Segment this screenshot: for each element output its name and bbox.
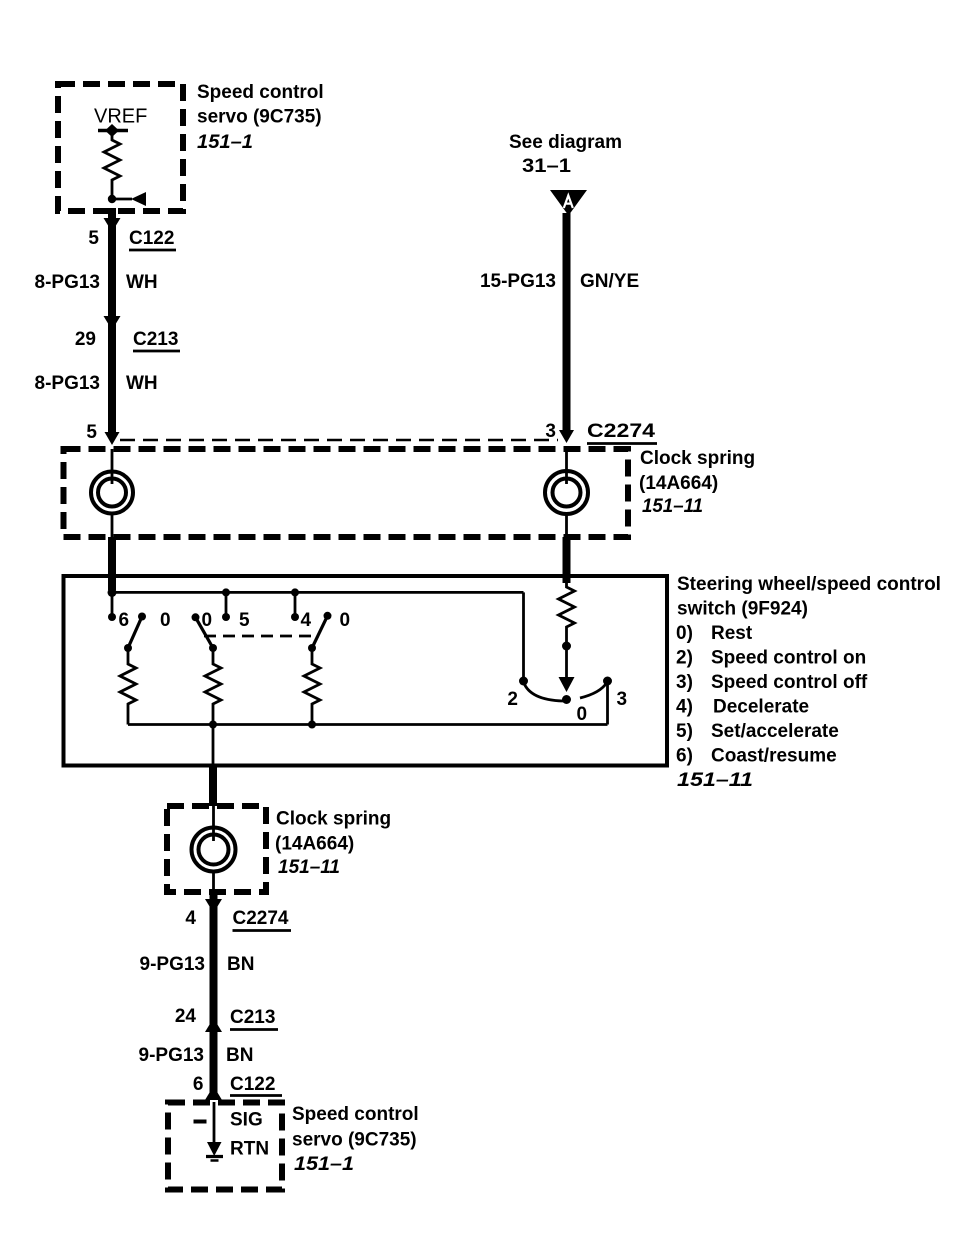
svg-text:6: 6 — [119, 610, 130, 631]
ground symbol — [207, 1142, 222, 1156]
clock spring box (upper, dashed) — [64, 449, 629, 537]
svg-text:Clock spring: Clock spring — [276, 809, 391, 830]
svg-text:RTN: RTN — [230, 1139, 269, 1160]
clock spring box (lower, dashed) — [167, 806, 266, 892]
svg-text:WH: WH — [126, 373, 158, 394]
arrow at clock spring pin 3 — [559, 430, 574, 443]
svg-text:5: 5 — [239, 610, 250, 631]
pin SIG RTN wire inside servo — [213, 1102, 216, 1146]
svg-text:31–1: 31–1 — [522, 156, 571, 177]
svg-text:C122: C122 — [230, 1074, 275, 1095]
rotary arc (right segment) — [580, 683, 607, 698]
svg-text:C2274: C2274 — [233, 908, 289, 929]
svg-text:151–11: 151–11 — [642, 496, 703, 517]
contact 5 stub — [225, 592, 228, 615]
svg-text:8-PG13: 8-PG13 — [35, 272, 100, 293]
svg-text:Speed control: Speed control — [292, 1104, 419, 1125]
potentiometer wiper arrow — [108, 195, 116, 203]
svg-text:2: 2 — [507, 689, 518, 710]
svg-text:GN/YE: GN/YE — [580, 271, 639, 292]
svg-text:5: 5 — [88, 228, 99, 249]
svg-text:151–11: 151–11 — [278, 857, 340, 878]
steering wheel/speed control switch box S1 (solid) — [64, 576, 668, 766]
svg-text:BN: BN — [227, 954, 254, 975]
wire: SW2 branch down through box bottom — [212, 725, 215, 766]
wire: left coil to switch box — [108, 537, 116, 576]
svg-text:9-PG13: 9-PG13 — [140, 954, 205, 975]
wire: right coil to switch box — [563, 537, 571, 581]
wire: thick stub into box (right) — [563, 576, 571, 583]
svg-text:8-PG13: 8-PG13 — [35, 373, 100, 394]
svg-text:switch (9F924): switch (9F924) — [677, 599, 808, 620]
svg-text:5): 5) — [676, 721, 693, 742]
wire: bus corner down to contact 2 — [522, 592, 525, 679]
clock spring coil L1 (left) — [111, 449, 114, 484]
svg-text:C122: C122 — [129, 228, 174, 249]
arrow on wire below servo box — [104, 218, 121, 232]
svg-text:Speed control on: Speed control on — [711, 648, 866, 669]
speed control servo box U1 (top, dashed) — [58, 84, 183, 211]
arrow at pin 24 (up) — [205, 1018, 222, 1032]
switch arm SW3 (decelerate) — [324, 612, 332, 620]
bus wire inside switch box — [112, 591, 524, 594]
svg-text:0: 0 — [202, 610, 213, 631]
svg-text:(14A664): (14A664) — [639, 473, 718, 494]
contact 4 stub — [294, 592, 297, 615]
svg-text:24: 24 — [175, 1006, 197, 1027]
svg-text:3: 3 — [545, 421, 556, 442]
svg-text:C213: C213 — [133, 329, 178, 350]
switch arm SW2 (set/accelerate) — [192, 613, 200, 621]
svg-text:Clock spring: Clock spring — [640, 448, 755, 469]
svg-text:VREF: VREF — [94, 106, 147, 128]
svg-text:0: 0 — [160, 610, 171, 631]
svg-text:6: 6 — [193, 1074, 204, 1095]
svg-text:3): 3) — [676, 672, 693, 693]
rotary contact 2 — [519, 677, 528, 686]
svg-text:2): 2) — [676, 648, 693, 669]
svg-text:6): 6) — [676, 746, 693, 767]
mechanical coupling (dashed) between SW2 and SW3 — [204, 635, 319, 638]
svg-text:5: 5 — [86, 422, 97, 443]
svg-text:servo (9C735): servo (9C735) — [197, 107, 322, 128]
svg-text:0): 0) — [676, 623, 693, 644]
speed control servo box U1 (bottom, dashed) — [168, 1103, 282, 1190]
svg-text:151–1: 151–1 — [197, 132, 253, 153]
minus polarity mark — [194, 1120, 207, 1124]
svg-text:(14A664): (14A664) — [275, 834, 354, 855]
resistor R2 (SW2 branch) — [205, 648, 221, 725]
wire: R4 to rotary wiper — [565, 632, 568, 678]
svg-text:151–11: 151–11 — [677, 770, 753, 791]
clock spring coil L2 (right) — [565, 449, 568, 484]
svg-text:9-PG13: 9-PG13 — [139, 1045, 204, 1066]
clock spring coil L3 (lower) — [212, 806, 215, 841]
resistor R4 (on/off branch) — [559, 582, 575, 632]
svg-text:3: 3 — [617, 689, 628, 710]
resistor: VREF potentiometer element — [104, 135, 120, 185]
wire: A down to clock spring pin 3 — [563, 213, 571, 436]
svg-text:SIG: SIG — [230, 1110, 263, 1131]
svg-text:Coast/resume: Coast/resume — [711, 746, 837, 767]
svg-text:servo (9C735): servo (9C735) — [292, 1130, 417, 1151]
wire: contact 3 down to bottom bus — [606, 681, 609, 725]
svg-text:Speed control off: Speed control off — [711, 672, 868, 693]
svg-text:Decelerate: Decelerate — [713, 697, 809, 718]
svg-text:C213: C213 — [230, 1007, 275, 1028]
svg-text:Steering wheel/speed control: Steering wheel/speed control — [677, 574, 941, 595]
connector C2274 tie line (dashed) — [120, 439, 558, 442]
wire: servo pin 5 down to clock spring pin 5 — [108, 208, 116, 438]
off-page connector A (solid triangle) — [550, 190, 587, 216]
resistor R3 (SW3 branch) — [304, 648, 320, 725]
arrow at pin 6 (up) — [205, 1086, 222, 1100]
svg-text:4): 4) — [676, 697, 693, 718]
svg-text:29: 29 — [75, 329, 96, 350]
svg-text:Rest: Rest — [711, 623, 753, 644]
resistor R1 (SW1 branch) — [120, 648, 136, 725]
svg-text:See diagram: See diagram — [509, 132, 622, 153]
svg-text:4: 4 — [185, 908, 196, 929]
arrow at clock spring pin 5 — [105, 432, 120, 445]
contact 6 stub — [111, 592, 114, 615]
rotary arc (left segment) — [524, 682, 564, 701]
wire: thick stub into box (left) — [108, 572, 116, 590]
wire: lower clock spring to servo SIG RTN — [210, 892, 218, 1100]
svg-text:0: 0 — [577, 704, 588, 725]
rotary contact 3 — [603, 677, 612, 686]
svg-text:15-PG13: 15-PG13 — [480, 271, 556, 292]
arrow on wire above C213 junction — [104, 316, 121, 330]
arrow at pin 4 (down) — [205, 899, 222, 913]
svg-text:C2274: C2274 — [587, 421, 656, 442]
switch arm SW1 (coast/resume) — [138, 613, 146, 621]
rotary wiper arrow — [559, 677, 575, 692]
bottom bus wire — [128, 723, 608, 726]
svg-text:WH: WH — [126, 272, 158, 293]
svg-text:Set/accelerate: Set/accelerate — [711, 721, 839, 742]
svg-text:151–1: 151–1 — [294, 1154, 354, 1175]
svg-text:0: 0 — [340, 610, 351, 631]
svg-text:BN: BN — [226, 1045, 253, 1066]
svg-text:Speed control: Speed control — [197, 82, 324, 103]
svg-text:4: 4 — [301, 610, 312, 631]
wire: switch box to lower clock spring — [209, 766, 217, 807]
